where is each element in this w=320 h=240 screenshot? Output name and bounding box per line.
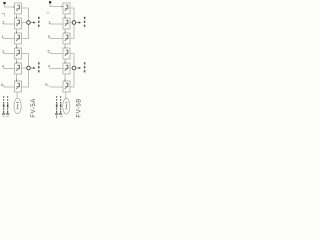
wire node C to arrow xyxy=(76,22,79,24)
chain wire U7-U8 xyxy=(64,14,66,18)
transistor Q11 xyxy=(65,65,69,71)
wire input 3B to U9 xyxy=(50,38,64,40)
node C summing circle xyxy=(72,21,76,25)
wire U12 to oscillator oval xyxy=(65,92,67,99)
wire node B to arrow xyxy=(30,67,33,69)
wire U5 output to node B xyxy=(22,67,27,69)
divider box U9 xyxy=(63,33,70,44)
wire from dot to divider U7 input xyxy=(50,3,62,6)
oscillator oval V2 xyxy=(63,98,70,114)
transistor Q9 xyxy=(65,35,69,41)
chain wire U1-U2 xyxy=(16,14,18,18)
divider box U7 xyxy=(63,3,70,14)
transistor Q12 xyxy=(65,83,69,89)
label TO output B (vertical specks) xyxy=(38,62,40,72)
svg-text:3,: 3, xyxy=(2,50,5,54)
label TO output D (vertical specks) xyxy=(84,62,86,72)
chain wire U11-U12 xyxy=(64,74,66,81)
divider box U3 xyxy=(15,33,22,44)
chain wire U10-U11 xyxy=(64,59,66,63)
svg-text:4: 4 xyxy=(2,64,4,68)
wire from dot to divider U1 input xyxy=(5,4,14,7)
wire input 6 to U6 xyxy=(4,86,15,88)
divider box U11 xyxy=(63,63,70,74)
wire U4 output down to node B xyxy=(22,54,29,67)
divider box U6 xyxy=(15,81,22,92)
transistor Q5 xyxy=(16,65,20,71)
chain wire U9-U10 xyxy=(64,44,66,48)
chain wire U5-U6 xyxy=(16,74,18,81)
svg-text:4: 4 xyxy=(48,64,50,68)
wire input 4 to U4 xyxy=(3,53,14,55)
arrowhead output D xyxy=(79,67,81,69)
svg-text:K,,: K,, xyxy=(46,83,50,87)
wire U1 output to node A xyxy=(22,8,29,21)
oval V2 internal marks xyxy=(65,103,67,109)
stub wire below terminal xyxy=(2,14,5,17)
junction tick U5 top xyxy=(16,62,18,64)
wire input 4B to U10 xyxy=(50,53,63,55)
junction tick U12 top xyxy=(64,80,66,82)
wire input 5B to U11 xyxy=(50,68,64,70)
junction tick U3 top xyxy=(16,32,18,34)
chain wire U8-U9 xyxy=(64,29,66,33)
junction tick U2 top xyxy=(16,17,18,19)
wire U6 output up to node B xyxy=(22,70,29,87)
continuation dotted line 4 xyxy=(59,96,63,117)
transistor Q10 xyxy=(65,50,69,56)
junction tick U6 top xyxy=(16,80,18,82)
wire U6 to oscillator oval xyxy=(16,92,18,98)
divider box U4 xyxy=(15,48,22,59)
wire input 2B to U8 xyxy=(50,23,64,25)
chain wire U2-U3 xyxy=(16,29,18,33)
svg-text:FV-5A: FV-5A xyxy=(31,98,37,117)
label TO output A (vertical specks) xyxy=(38,17,40,27)
chain wire U4-U5 xyxy=(16,59,18,63)
transistor Q6 xyxy=(16,83,20,89)
junction tick U9 top xyxy=(64,32,66,34)
junction tick U8 top xyxy=(64,17,66,19)
divider box U1 xyxy=(15,3,22,14)
pin tick U7 input xyxy=(61,6,63,8)
divider box U2 xyxy=(15,18,22,29)
wire U2 output to node A xyxy=(22,22,27,24)
wire input 3 to U3 xyxy=(3,38,15,40)
continuation dotted line 2 xyxy=(6,96,9,117)
arrowhead output B xyxy=(33,67,35,69)
pin tick U1 input xyxy=(13,6,15,8)
wire U8 output to node C xyxy=(70,22,72,24)
divider box U5 xyxy=(15,63,22,74)
oval V1 internal marks xyxy=(16,103,18,109)
transistor Q1 xyxy=(16,5,20,11)
transistor Q2 xyxy=(16,20,20,26)
svg-text:FV-5B: FV-5B xyxy=(76,98,82,117)
label TO output C (vertical specks) xyxy=(84,17,86,27)
stub wire right circuit xyxy=(46,12,49,14)
oscillator oval V1 xyxy=(14,98,21,114)
arrowhead output C xyxy=(79,21,81,23)
transistor Q3 xyxy=(16,35,20,41)
transistor Q7 xyxy=(65,5,69,11)
wire U12 output up to node D xyxy=(70,70,74,87)
transistor Q8 xyxy=(65,20,69,26)
junction tick U11 top xyxy=(64,62,66,64)
terminal dot B (input pad) xyxy=(49,1,51,3)
chain wire U3-U4 xyxy=(16,44,18,48)
continuation dotted line 1 xyxy=(2,96,5,117)
divider box U12 xyxy=(63,81,70,92)
divider box U10 xyxy=(63,48,70,59)
transistor Q4 xyxy=(16,50,20,56)
wire U10 output down to node D xyxy=(70,54,74,67)
terminal dot A (input pad) xyxy=(3,2,5,4)
wire input 2 to U2 xyxy=(3,23,15,25)
node D summing circle xyxy=(72,66,76,70)
wire input 5 to U5 xyxy=(3,68,15,70)
junction tick U10 top xyxy=(64,47,66,49)
wire node D to arrow xyxy=(76,67,79,69)
wire U3 output up to node A xyxy=(22,24,29,38)
arrowhead output A xyxy=(33,21,35,23)
wire U9 output up to node C xyxy=(70,24,74,38)
svg-text:5,: 5, xyxy=(48,50,51,54)
wire U7 output to node C xyxy=(70,8,74,21)
junction tick U4 top xyxy=(16,47,18,49)
wire node A to arrow xyxy=(30,22,33,24)
wire U11 output to node D xyxy=(70,67,72,69)
svg-text:A,,: A,, xyxy=(1,83,5,87)
continuation dotted line 3 xyxy=(55,96,58,118)
divider box U8 xyxy=(63,18,70,29)
node A summing circle xyxy=(27,21,31,25)
node B summing circle xyxy=(27,66,31,70)
wire input 6B to U12 xyxy=(50,86,63,88)
